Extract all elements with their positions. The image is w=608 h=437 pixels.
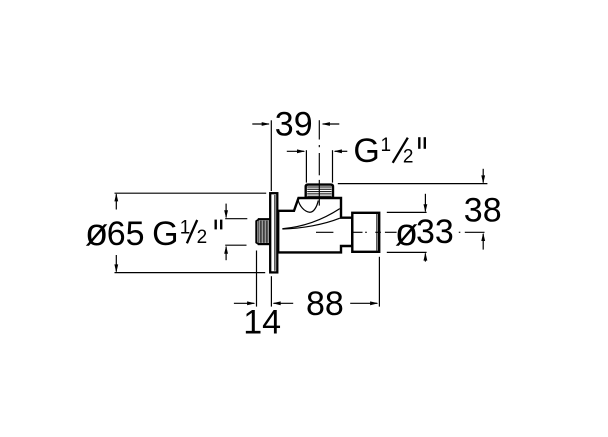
svg-text:14: 14 xyxy=(243,304,281,342)
dim 39 right arrow xyxy=(323,123,340,125)
dim G1/2 left bottom extension line xyxy=(225,244,246,246)
dim o65 top arrow xyxy=(115,194,117,209)
G1/2 top fraction slash xyxy=(393,138,408,163)
lower flow contour curve xyxy=(282,218,339,229)
dim o65 bottom extension line xyxy=(115,272,266,274)
svg-text:33: 33 xyxy=(416,213,454,251)
top outlet thread crest lines xyxy=(307,187,331,196)
outlet cylinder (o33) xyxy=(352,213,379,252)
dim 39 left arrow xyxy=(252,123,269,125)
svg-text:1: 1 xyxy=(381,135,392,156)
dim o33 top extension line xyxy=(387,211,427,213)
svg-text:ø: ø xyxy=(395,212,418,254)
dim o33 bottom arrow xyxy=(424,253,426,261)
dim 38 top extension line (from top of outlet thread) xyxy=(338,183,488,185)
dim G1/2 top left extension line xyxy=(305,150,307,182)
dim G1/2 top right arrow xyxy=(335,150,348,152)
wall flange (o65 escutcheon) xyxy=(270,193,277,272)
dim 88 right extension line (cylinder end) xyxy=(378,257,380,307)
o65 G1/2 fraction slash xyxy=(187,220,197,243)
dim G1/2 top right extension line xyxy=(332,150,334,182)
dim o33 top arrow xyxy=(424,194,426,212)
svg-text:G: G xyxy=(353,132,379,170)
G1/2 top inch marks xyxy=(418,137,420,149)
upper flow contour curve xyxy=(282,209,339,229)
dim G1/2 left bottom arrow xyxy=(225,247,227,261)
valve seat hook curve inside body xyxy=(298,200,318,213)
outlet cylinder end-cap line xyxy=(376,214,378,251)
svg-text:39: 39 xyxy=(275,106,313,144)
horizontal centerline (main axis) xyxy=(316,231,485,233)
svg-text:1: 1 xyxy=(180,217,191,238)
dim o65 bottom arrow xyxy=(115,255,117,272)
vertical centerline (top outlet axis) xyxy=(318,120,320,205)
inlet thread (G1/2 male, horizontal) xyxy=(256,219,271,244)
svg-text:65: 65 xyxy=(107,215,145,253)
dim o65 top extension line xyxy=(115,192,267,194)
dim o33 bottom extension line xyxy=(387,251,427,253)
dim 38 bottom arrow xyxy=(482,234,484,250)
svg-text:ø: ø xyxy=(85,212,108,254)
valve body outline with outlet neck xyxy=(278,198,352,252)
dim G1/2 left top extension line xyxy=(225,218,247,220)
svg-text:2: 2 xyxy=(403,147,414,168)
svg-text:38: 38 xyxy=(464,191,502,229)
dim 14 left extension line (thread end) xyxy=(256,251,258,307)
dim G1/2 top left arrow xyxy=(287,150,304,152)
o65 G1/2 inch marks xyxy=(214,220,216,230)
top outlet thread (G1/2 male, vertical) xyxy=(306,185,333,199)
dim 14 left arrow xyxy=(234,302,254,304)
svg-text:2: 2 xyxy=(197,227,208,248)
svg-text:88: 88 xyxy=(306,285,344,323)
dim 88 right arrow xyxy=(350,302,377,304)
dim 14 right / 88 left arrow xyxy=(274,302,294,304)
dim 39 extension line (wall face) xyxy=(270,120,272,191)
flange inner edge line xyxy=(274,195,276,271)
dim G1/2 left top arrow xyxy=(225,204,227,218)
svg-text:G: G xyxy=(152,215,178,253)
dim 38 top arrow xyxy=(482,169,484,183)
shared extension line wall face (14 right / 88 left) xyxy=(270,276,272,306)
